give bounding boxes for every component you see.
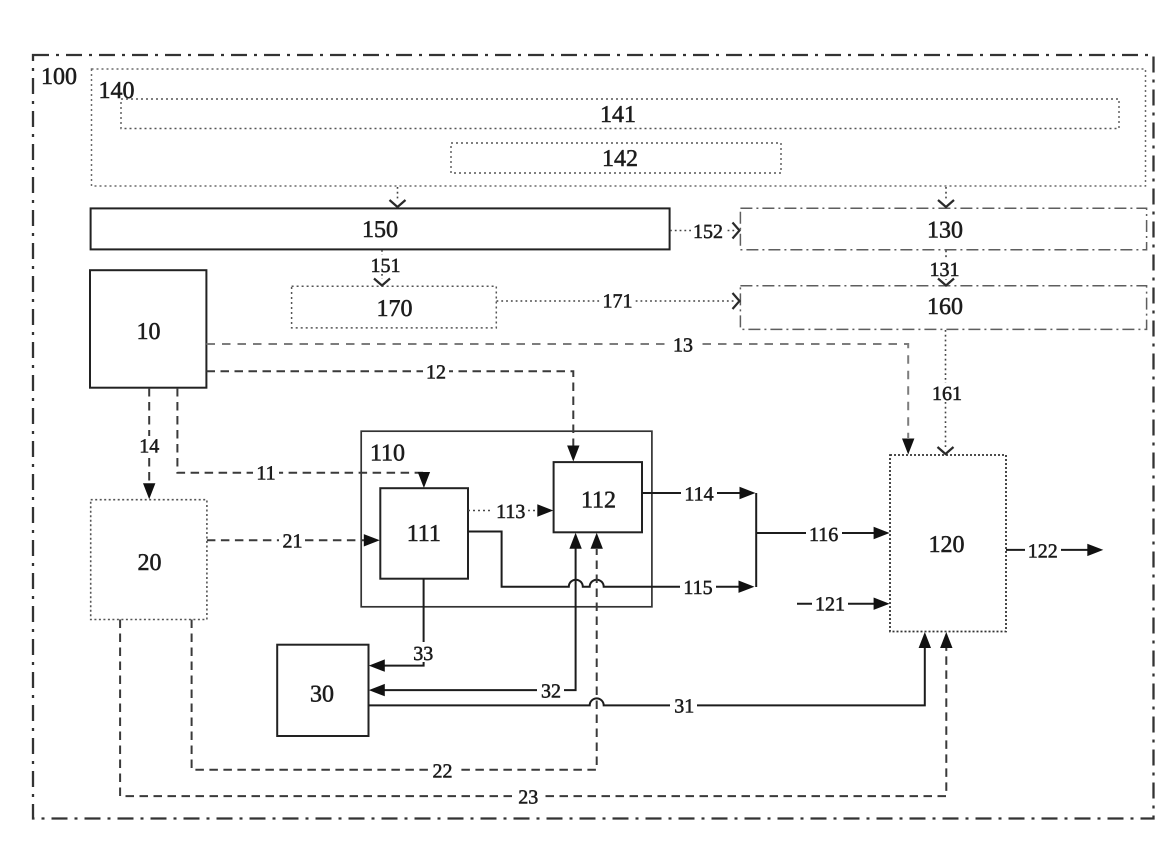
- box 112: [554, 462, 642, 532]
- label 151: [370, 255, 401, 274]
- arrowhead 11 into 111: [418, 472, 430, 488]
- arrowhead open 131 into 160: [938, 279, 954, 286]
- label 161: [930, 383, 963, 402]
- wire 12: [207, 371, 574, 446]
- svg-text:10: 10: [137, 319, 161, 345]
- wire 115: [468, 532, 739, 587]
- svg-text:110: 110: [370, 441, 405, 467]
- label 14: [136, 436, 162, 455]
- box 170: [292, 286, 497, 328]
- wire 122: [1006, 549, 1088, 551]
- arrowhead 116 into 120: [874, 527, 890, 539]
- label 33: [410, 642, 437, 662]
- box 30: [277, 645, 368, 736]
- svg-text:112: 112: [581, 488, 616, 514]
- arrowhead 114 into bar: [740, 487, 756, 499]
- label 12: [423, 362, 449, 381]
- svg-text:116: 116: [809, 524, 838, 546]
- label 32: [537, 681, 564, 700]
- box 20: [91, 500, 207, 620]
- svg-text:111: 111: [407, 521, 441, 547]
- svg-text:14: 14: [139, 436, 159, 458]
- label 121: [812, 594, 848, 613]
- wire 21: [207, 539, 364, 541]
- svg-text:23: 23: [518, 787, 538, 809]
- svg-text:130: 130: [927, 218, 963, 244]
- arrowhead 13 into 120: [902, 439, 914, 455]
- arrowhead open 171 into 160: [733, 293, 740, 309]
- svg-text:13: 13: [673, 335, 693, 357]
- svg-text:152: 152: [693, 221, 723, 243]
- box 110: [361, 431, 652, 607]
- svg-text:151: 151: [371, 255, 401, 277]
- arrowhead 32 into 112: [569, 533, 581, 549]
- wire 140 to 130: [945, 187, 947, 201]
- box 130: [740, 208, 1146, 250]
- svg-text:141: 141: [600, 102, 636, 128]
- wire 151: [381, 250, 383, 279]
- wire 140 to 150: [397, 187, 399, 201]
- wire 14: [148, 388, 150, 483]
- arrowhead 115 into bar: [739, 581, 755, 593]
- svg-text:120: 120: [929, 532, 965, 558]
- label 114: [681, 484, 717, 503]
- svg-text:100: 100: [41, 64, 77, 90]
- wire 116: [756, 532, 875, 534]
- wire 13: [207, 344, 909, 438]
- wire 114: [642, 492, 740, 494]
- collector bar node: [755, 493, 757, 587]
- label 122: [1025, 541, 1061, 560]
- arrowhead 22 into 112: [591, 533, 603, 549]
- label 116: [806, 524, 842, 543]
- svg-text:121: 121: [815, 594, 845, 616]
- wire 131: [945, 251, 947, 281]
- wire 152: [670, 230, 735, 232]
- svg-text:122: 122: [1028, 541, 1058, 563]
- arrowhead open 152 into 130: [733, 223, 740, 239]
- svg-text:170: 170: [377, 296, 413, 322]
- wire 33: [384, 579, 424, 666]
- box 150: [91, 208, 670, 249]
- arrowhead open 161 into 120: [938, 447, 954, 454]
- label 113: [493, 501, 528, 520]
- box 120: [890, 455, 1006, 632]
- box 142: [451, 143, 781, 173]
- svg-text:33: 33: [413, 643, 433, 665]
- svg-text:140: 140: [99, 78, 135, 104]
- label 11: [253, 463, 279, 482]
- svg-text:161: 161: [932, 383, 962, 405]
- svg-text:22: 22: [433, 761, 453, 783]
- arrowhead 14 into 20: [143, 483, 155, 499]
- wire 32: [384, 548, 576, 690]
- wire 161: [945, 330, 947, 448]
- svg-text:131: 131: [930, 259, 960, 281]
- label 171: [600, 291, 635, 310]
- label 152: [691, 221, 725, 240]
- arrowhead 32 into 30: [369, 684, 385, 696]
- svg-text:115: 115: [683, 577, 712, 599]
- label 21: [279, 531, 305, 550]
- box 140: [92, 69, 1146, 186]
- box 160: [740, 286, 1146, 330]
- label 131: [928, 259, 962, 278]
- box 10: [90, 270, 206, 388]
- arrowhead open 151 into 170: [374, 279, 390, 286]
- svg-text:21: 21: [283, 531, 303, 553]
- arrowhead 33 into 30: [369, 659, 385, 671]
- arrowhead open into 130: [938, 200, 954, 207]
- label 13: [670, 335, 696, 354]
- arrowhead 122 output: [1087, 544, 1103, 556]
- arrowhead open into 150: [390, 200, 406, 207]
- arrowhead 23 into 120: [940, 632, 952, 648]
- svg-text:142: 142: [602, 146, 638, 172]
- arrowhead 21 into 111: [364, 534, 380, 546]
- arrowhead 113 into 112: [537, 504, 553, 516]
- wire 31: [369, 648, 925, 705]
- svg-text:32: 32: [541, 681, 561, 703]
- label 31: [670, 696, 697, 715]
- svg-text:113: 113: [496, 501, 525, 523]
- wire 121: [797, 603, 875, 605]
- label 23: [515, 787, 542, 806]
- svg-text:171: 171: [603, 291, 633, 313]
- box 141: [121, 99, 1119, 129]
- wire 23: [120, 620, 946, 797]
- svg-text:160: 160: [927, 294, 963, 320]
- svg-text:20: 20: [138, 550, 162, 576]
- arrowhead 12 into 112: [567, 446, 579, 462]
- wire 113: [468, 510, 539, 512]
- box 111: [380, 488, 468, 579]
- label 115: [680, 578, 716, 596]
- svg-text:11: 11: [256, 463, 275, 485]
- svg-text:150: 150: [362, 217, 398, 243]
- svg-text:30: 30: [310, 682, 334, 708]
- arrowhead 31 into 120: [919, 632, 931, 648]
- label 22: [429, 761, 456, 780]
- svg-text:114: 114: [684, 484, 713, 506]
- svg-text:12: 12: [426, 362, 446, 384]
- arrowhead 121 into 120: [874, 598, 890, 610]
- wire 11: [177, 388, 424, 473]
- svg-text:31: 31: [674, 696, 694, 718]
- wire 171: [497, 300, 736, 302]
- wire 22: [192, 549, 597, 770]
